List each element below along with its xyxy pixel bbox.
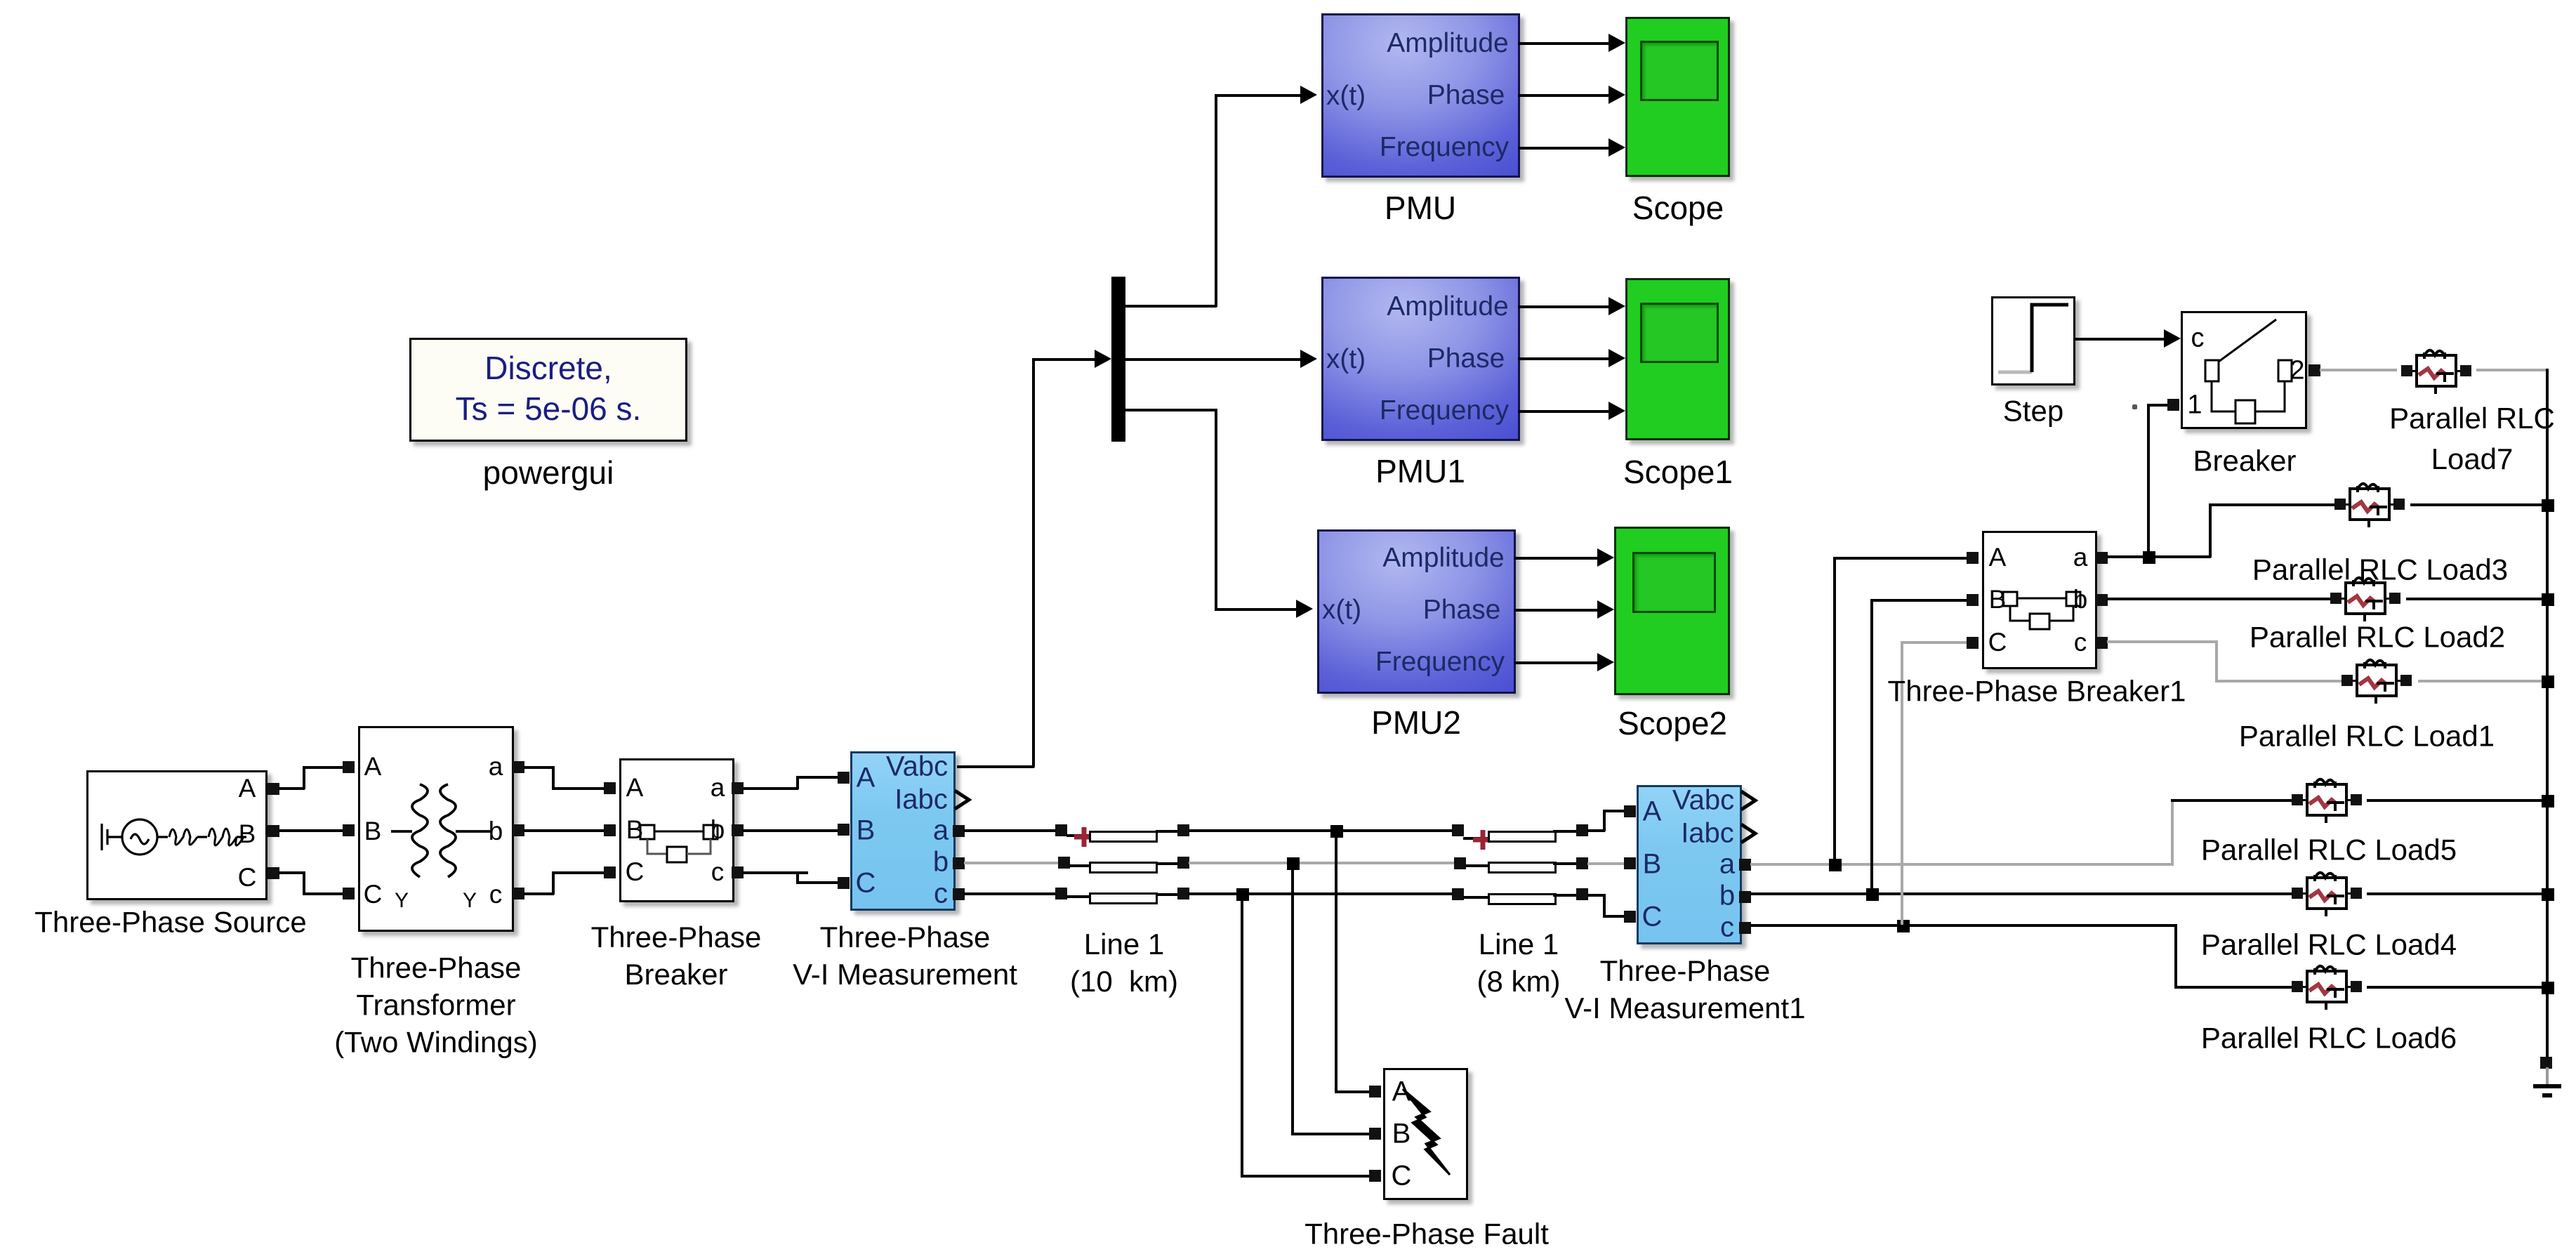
elbow down to Load6 line — [2174, 924, 2177, 988]
wire source B to transformer B — [279, 829, 343, 832]
wire Load6 to bus — [2367, 986, 2549, 989]
wire PMU2 Phase to Scope2 — [1514, 609, 1599, 612]
Three-Phase V-I Measurement label — [793, 919, 1017, 994]
Three-Phase V-I Measurement1 block — [1637, 785, 1742, 944]
wire down to fault A — [1335, 831, 1337, 1093]
port square VI C in — [838, 877, 850, 889]
Three-Phase Breaker label — [591, 919, 762, 994]
junction c feed Breaker1 C — [1897, 920, 1910, 932]
Scope2 label — [1618, 704, 1727, 744]
port square VI a out — [953, 825, 965, 837]
wire 8km b to VI1 B (gray) — [1587, 862, 1635, 865]
Line1 8km phase a: left port — [1452, 824, 1464, 836]
red plus marker phase a 8km — [1472, 829, 1494, 851]
PMU block — [1321, 13, 1520, 178]
port square source C — [267, 867, 279, 879]
Line1 8km label — [1477, 926, 1561, 1001]
resistor 8km b — [1488, 862, 1557, 874]
port square VI1 a out — [1739, 859, 1751, 871]
port square Breaker1 c out — [2096, 637, 2108, 649]
wire Load4 to bus — [2367, 892, 2549, 895]
Scope1 screen — [1640, 303, 1719, 363]
Line1 10km phase c: left port — [1055, 888, 1067, 899]
arrow into PMU1 x(t) — [1300, 350, 1317, 368]
resistor 8km a — [1488, 831, 1557, 843]
arrow into PMU2 x(t) — [1296, 600, 1313, 618]
wire 10km a to 8km a — [1189, 829, 1454, 832]
Step block — [1991, 296, 2075, 385]
Step icon — [1991, 296, 2075, 385]
arrow into bus — [1095, 350, 1111, 368]
Three-Phase V-I Measurement block — [850, 751, 956, 911]
bus junction Load3 — [2542, 499, 2554, 512]
Line1 10km phase b right port — [1177, 857, 1189, 869]
wire Breaker out to Load7 (gray) — [2320, 369, 2397, 371]
wire 10km b to 8km b (gray) — [1189, 862, 1455, 864]
Parallel RLC Load2 label — [2250, 619, 2505, 657]
Line1 10km phase a: left port — [1055, 824, 1067, 836]
port square VI b out — [953, 857, 965, 869]
8km phase a right port — [1576, 824, 1588, 836]
wire Load5 line — [2171, 799, 2294, 802]
Breaker label — [2193, 443, 2296, 480]
wire PMU2 Amplitude to Scope2 — [1514, 557, 1599, 560]
wire VI1 b out to Load4 — [1750, 892, 2294, 895]
PMU1 label — [1375, 451, 1465, 492]
Three-Phase Source icon — [86, 770, 267, 900]
wire VI b out to Line1 10km (gray) — [964, 862, 1061, 864]
port square fault B — [1369, 1128, 1381, 1140]
port square breaker A in — [604, 782, 616, 794]
Load1 icon — [2336, 660, 2420, 705]
port square Breaker1 A in — [1967, 552, 1979, 564]
wire up to Breaker1 C (gray) — [1901, 641, 1903, 925]
port square transformer C — [343, 888, 355, 899]
bus junction Load5 — [2542, 795, 2554, 808]
V-I Measurement port letters — [857, 763, 876, 794]
bus junction Load2 — [2542, 593, 2554, 606]
bus junction Load4 — [2542, 888, 2554, 901]
Line1 8km phase c: left port — [1452, 888, 1464, 900]
wire Breaker1 b out to Load2 — [2107, 598, 2337, 600]
Three-Phase Transformer label — [334, 950, 537, 1062]
port square VI1 c out — [1739, 922, 1751, 934]
Line1 10km label — [1070, 926, 1178, 1001]
PMU1 block — [1321, 277, 1520, 441]
Scope block — [1625, 17, 1730, 177]
port square VI1 b out — [1739, 891, 1751, 903]
resistor 8km c — [1488, 893, 1557, 905]
wire Load7 to bus corner (gray) — [2476, 369, 2549, 371]
Three-Phase Breaker port letters — [626, 773, 644, 803]
powergui label — [483, 453, 614, 494]
wire PMU2 Frequency to Scope2 — [1514, 661, 1599, 664]
Breaker block — [2181, 311, 2307, 429]
ground port square — [2540, 1057, 2552, 1069]
wire VI a out to Line1 10km — [964, 829, 1058, 832]
Three-Phase Breaker1 block — [1982, 531, 2097, 669]
wire up to Breaker1 A — [1833, 557, 1836, 864]
port square source A — [267, 783, 279, 795]
junction a feed Breaker1 A — [1829, 859, 1842, 871]
port square breaker c out — [732, 866, 744, 878]
port square transformer a out — [513, 761, 524, 773]
Three-Phase Breaker1 port letters — [1989, 543, 2007, 572]
Scope label — [1632, 188, 1724, 229]
Load6 icon — [2286, 966, 2370, 1011]
port square fault C — [1369, 1170, 1381, 1182]
Load3 icon — [2329, 484, 2413, 529]
port square Breaker1 C in — [1967, 637, 1979, 649]
port square transformer c out — [513, 888, 524, 899]
bus bar — [1111, 277, 1125, 442]
port square VI1 A in — [1624, 805, 1636, 817]
Scope2 block — [1614, 527, 1730, 695]
Parallel RLC Load4 label — [2201, 927, 2457, 964]
wire PMU1 Phase to Scope1 — [1518, 357, 1610, 360]
Three-Phase V-I Measurement1 label — [1564, 953, 1805, 1027]
bus middle branch to PMU1 x(t) — [1125, 358, 1302, 361]
wire PMU1 Amplitude to Scope1 — [1518, 305, 1610, 308]
Line1 10km phase a right port — [1177, 824, 1189, 836]
port square VI1 B in — [1624, 857, 1636, 869]
V-I Measurement Iabc chevron — [953, 789, 972, 810]
wire Load3 to bus — [2410, 503, 2549, 506]
port square breaker b out — [732, 824, 744, 836]
Scope1 block — [1625, 278, 1730, 440]
wire transformer b to breaker B — [524, 829, 605, 832]
Load5 icon — [2286, 779, 2370, 824]
wire PMU Amplitude to Scope — [1518, 42, 1610, 45]
8km phase b right port — [1576, 857, 1588, 869]
port square Breaker1 b out — [2096, 594, 2108, 606]
port square breaker a out — [732, 782, 744, 794]
wire Load1 to bus (gray) — [2418, 680, 2549, 683]
Step label — [2003, 393, 2063, 430]
fault lightning bolt — [1383, 1068, 1468, 1200]
PMU label — [1385, 188, 1456, 229]
port square breaker B in — [604, 824, 616, 836]
port square VI B in — [838, 824, 850, 836]
Line1 8km phase b: left port — [1454, 857, 1466, 869]
wire VI Vabc up to bus — [957, 765, 1034, 768]
junction b to fault — [1287, 857, 1300, 870]
wire breaker b to VI B — [743, 829, 838, 832]
wire VI1 a out gray run — [1750, 863, 2173, 866]
Parallel RLC Load6 label — [2201, 1020, 2457, 1057]
Line1 10km phase b: left port — [1058, 857, 1070, 869]
wire VI c out to Line1 10km — [964, 892, 1058, 895]
wire Breaker1 a out to Load3 — [2107, 555, 2211, 558]
Parallel RLC Load7 label — [2389, 398, 2555, 480]
Breaker port labels — [2191, 324, 2205, 354]
V-I Measurement1 Vabc chevron — [1740, 790, 1758, 811]
wire up to Breaker1 B — [1870, 599, 1873, 893]
Three-Phase Source port letters — [239, 774, 256, 803]
wire breaker c to VI C — [743, 871, 798, 874]
Parallel RLC Load3 label — [2252, 552, 2508, 589]
cursor artifact dot — [2132, 404, 2137, 409]
wire Load5 to bus — [2367, 799, 2549, 802]
wire PMU Frequency to Scope — [1518, 147, 1610, 150]
port square Breaker1 a out — [2096, 552, 2108, 564]
Three-Phase Breaker1 icon — [1982, 531, 2097, 669]
PMU2 label — [1371, 703, 1461, 744]
Line1 10km phase c right port — [1177, 888, 1189, 899]
wire PMU Phase to Scope — [1518, 94, 1610, 97]
port square fault A — [1369, 1086, 1381, 1097]
wire source C to transformer C — [279, 871, 305, 874]
Breaker switch icon — [2181, 311, 2307, 429]
port square Breaker out — [2309, 364, 2320, 376]
port square transformer b out — [513, 824, 524, 836]
load icon symbol defs — [0, 0, 7, 7]
transformer port letters — [364, 752, 382, 782]
powergui block — [409, 338, 687, 442]
Scope screen — [1640, 41, 1719, 101]
port square transformer B — [343, 824, 355, 836]
wire 10km c to 8km c — [1189, 892, 1454, 895]
right bus vertical — [2546, 369, 2549, 1060]
V-I Measurement1 port letters — [1643, 796, 1662, 828]
port square VI1 C in — [1624, 911, 1636, 923]
junction b feed Breaker1 B — [1866, 888, 1879, 901]
Three-Phase Breaker icon — [619, 758, 734, 902]
port square transformer A — [343, 761, 355, 773]
Three-Phase Fault block — [1383, 1068, 1468, 1200]
wire transformer c to breaker C — [524, 892, 554, 895]
wire Step to Breaker c — [2073, 338, 2168, 341]
Load4 icon — [2286, 873, 2370, 918]
wire Load2 to bus — [2406, 598, 2549, 600]
port square Breaker 1 in — [2167, 399, 2179, 411]
phase a stub + resistor + stub — [1066, 834, 1091, 837]
red plus marker phase a 10km — [1073, 826, 1095, 848]
wire 8km a to VI1 A — [1587, 829, 1605, 832]
junction c to fault — [1236, 888, 1249, 901]
wire Breaker1 c out to Load1 (gray) — [2107, 640, 2218, 643]
junction a to fault — [1330, 825, 1343, 838]
transformer winding icon — [358, 726, 514, 932]
wire Load6 line — [2174, 986, 2294, 989]
Three-Phase Transformer block — [358, 726, 514, 932]
gray elbow up to Load5 line — [2171, 799, 2174, 866]
bus junction Load6 — [2542, 982, 2554, 994]
Parallel RLC Load1 label — [2239, 718, 2495, 756]
wire PMU1 Frequency to Scope1 — [1518, 410, 1610, 413]
Load7 icon — [2396, 350, 2480, 395]
Three-Phase Source block — [86, 770, 267, 900]
wire transformer a to breaker A — [524, 766, 554, 769]
8km phase c right port — [1576, 888, 1588, 900]
Scope2 screen — [1632, 552, 1716, 613]
resistor 10km b — [1089, 862, 1158, 874]
Load2 icon — [2325, 578, 2409, 623]
wire VI1 c out run — [1750, 924, 2177, 927]
port square VI c out — [953, 888, 965, 900]
V-I Measurement1 Iabc chevron — [1740, 823, 1758, 844]
Three-Phase Breaker1 label — [1888, 673, 2186, 711]
port square source B — [267, 825, 279, 837]
resistor 10km c — [1089, 892, 1158, 904]
wire breaker a to VI A — [743, 787, 798, 790]
arrow into PMU x(t) — [1300, 86, 1317, 104]
port square Breaker1 B in — [1967, 594, 1979, 606]
fault port letters — [1392, 1076, 1411, 1108]
Scope1 label — [1623, 452, 1733, 493]
port square breaker C in — [604, 866, 616, 878]
PMU2 block — [1317, 529, 1516, 694]
junction to Breaker 1 input — [2143, 551, 2155, 564]
wire 8km c to VI1 C — [1587, 894, 1605, 897]
ground symbol — [2528, 1067, 2567, 1102]
wire source A to transformer A — [279, 787, 305, 790]
wire up from junction to Breaker port 1 — [2147, 404, 2150, 553]
Parallel RLC Load5 label — [2201, 832, 2457, 869]
port square VI A in — [838, 772, 850, 784]
Three-Phase Breaker block — [619, 758, 734, 902]
bus bottom branch to PMU2 x(t) — [1125, 409, 1217, 411]
resistor 10km a — [1089, 831, 1158, 843]
wire down to fault B — [1291, 863, 1294, 1135]
Three-Phase Source label — [34, 904, 307, 942]
bus top branch to PMU x(t) — [1125, 305, 1217, 308]
wire down to fault C — [1241, 894, 1243, 1177]
bus junction Load1 — [2542, 675, 2554, 688]
Three-Phase Fault label — [1304, 1216, 1549, 1253]
